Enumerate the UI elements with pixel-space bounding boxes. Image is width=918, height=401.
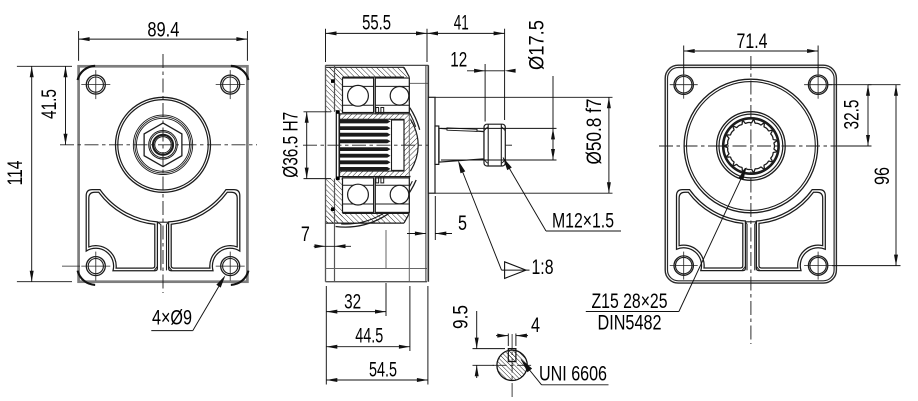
dimension 55.5 extensions — [326, 29, 428, 62]
dimension 54.5 extension — [427, 286, 429, 385]
dimension 4 extensions — [508, 334, 516, 347]
dimension 9.5 extensions — [473, 349, 506, 366]
dimension 9.5 — [450, 305, 479, 378]
section horizontal centerline — [303, 144, 512, 146]
section bearing top (ball bearing) — [343, 78, 410, 113]
section bore end rect — [392, 120, 405, 170]
svg-text:41: 41 — [454, 12, 469, 35]
dimension 96 extensions — [832, 85, 901, 266]
rear recess pocket contour — [677, 190, 826, 271]
label 4xD9 text — [152, 307, 192, 330]
shaft shoulder — [435, 126, 439, 164]
svg-text:41.5: 41.5 — [38, 89, 61, 119]
rear bolt hole bottom-left — [670, 252, 698, 280]
label Z15 28x25 / DIN5482 — [586, 290, 679, 334]
front rib — [154, 222, 172, 270]
section body lower edges — [326, 77, 429, 282]
dimension 41.5 — [38, 66, 68, 145]
dimension 5 — [407, 212, 467, 236]
dimension 114 — [4, 66, 34, 281]
front bolt hole bottom-right (4xD9) — [216, 252, 245, 281]
dimension D50.8 extensions — [435, 97, 612, 193]
svg-text:7: 7 — [301, 223, 310, 246]
section o-ring dots — [331, 79, 340, 211]
shaft thread M12 nut profile — [484, 124, 505, 166]
dimension D36.5 H7 — [280, 112, 309, 179]
section hatch hub wall bottom — [340, 171, 411, 177]
section bearing bottom (ball bearing) — [343, 178, 410, 213]
key cross-section — [508, 349, 516, 362]
front flange corner fillet bottom-left — [78, 271, 96, 285]
rear bolt hole top-right — [804, 71, 832, 99]
section hatch top band — [327, 67, 410, 77]
dimension 32 — [326, 291, 386, 314]
section hatch left wall upper — [326, 67, 343, 112]
dimension 89.4 — [79, 18, 248, 41]
front bolt hole top-left (4xD9) — [81, 70, 110, 99]
taper 1:8 leader — [458, 160, 502, 270]
dimension 32.5 — [841, 85, 871, 146]
rear rib — [742, 222, 759, 270]
section splined hub teeth — [340, 120, 391, 171]
dimension 4 — [496, 314, 540, 338]
front bolt hole bottom-left (4xD9) — [81, 252, 110, 281]
dimension 41 — [427, 12, 505, 36]
svg-text:44.5: 44.5 — [355, 325, 383, 348]
label Z15 leader — [679, 167, 747, 312]
dimension D17.5 extensions — [441, 128, 557, 160]
svg-text:Ø50.8 f7: Ø50.8 f7 — [583, 99, 606, 165]
dimension D50.8 f7 — [583, 97, 611, 193]
front pilot boss circle — [116, 97, 211, 192]
front bolt hole top-right (4xD9) — [216, 70, 245, 99]
rear view vertical centerline — [750, 56, 752, 344]
front bottom-left hole centerline stub — [62, 265, 80, 267]
section seal sleeve — [336, 112, 339, 179]
label 4xD9 leader — [151, 275, 225, 330]
dimension D17.5 — [526, 20, 556, 160]
dimension 71.4 — [684, 30, 818, 53]
front flange corner fillet top-right — [231, 66, 249, 80]
dimension 32 extension — [385, 283, 387, 316]
dimension 32.5 extensions — [828, 85, 872, 146]
rear spline profile Z15 DIN5482 — [725, 120, 777, 172]
dimension 89.4 extension lines — [79, 31, 248, 61]
front view vertical centerline — [162, 54, 164, 293]
svg-text:4: 4 — [531, 314, 540, 337]
section hub face line — [339, 114, 341, 177]
svg-text:UNI 6606: UNI 6606 — [539, 362, 607, 385]
dimension 54.5 — [326, 358, 428, 382]
dimension 96 — [871, 85, 898, 266]
rear view horizontal centerline — [659, 145, 872, 147]
dimension 71.4 extensions — [684, 46, 818, 75]
front recess pocket contour — [86, 190, 240, 271]
front inner circles — [149, 131, 178, 160]
dimension 44.5 extension — [326, 286, 410, 385]
svg-text:Ø36.5 H7: Ø36.5 H7 — [280, 112, 303, 178]
dimension 41 extension — [504, 29, 506, 120]
dimension 7 — [301, 223, 351, 248]
dimension 5 extension — [434, 196, 436, 240]
front view flange plate outline — [79, 66, 248, 281]
shaft key (UNI 6606) — [447, 128, 477, 131]
front view horizontal centerline — [60, 144, 257, 146]
svg-text:Ø17.5: Ø17.5 — [526, 20, 549, 70]
svg-text:55.5: 55.5 — [362, 12, 391, 35]
key detail centerlines — [493, 334, 533, 397]
dimension 12 extension — [484, 64, 486, 122]
shaft pilot (D50.8) — [428, 97, 435, 193]
svg-text:9.5: 9.5 — [450, 305, 473, 329]
front hex plug — [144, 123, 182, 167]
svg-text:Z15 28×25: Z15 28×25 — [592, 290, 668, 313]
rear body circle — [684, 79, 818, 213]
svg-text:96: 96 — [871, 167, 894, 185]
svg-text:71.4: 71.4 — [737, 30, 768, 53]
section hatch left wall lower — [326, 179, 343, 224]
section body top edge — [326, 64, 429, 66]
label M12x1.5 leader — [503, 158, 621, 232]
rear view flange outline — [665, 65, 836, 283]
dimension D36.5 extensions — [304, 112, 332, 179]
section rear plug outline — [404, 119, 418, 171]
front flange corner fillet bottom-right — [231, 271, 249, 285]
svg-text:DIN5482: DIN5482 — [598, 312, 662, 335]
section hub wall outlines — [340, 114, 411, 177]
dimension 41.5 extension — [17, 65, 72, 67]
svg-text:12: 12 — [450, 49, 467, 72]
label M12x1.5 — [552, 209, 614, 232]
section rear cover face — [426, 65, 428, 281]
dimension 55.5 — [326, 12, 428, 36]
dimension 114 extensions — [17, 281, 72, 283]
key shaft section hatched circle — [497, 350, 527, 380]
rear bolt hole top-left — [670, 71, 698, 99]
svg-text:4×Ø9: 4×Ø9 — [152, 307, 192, 330]
shaft taper 1:8 — [439, 128, 484, 162]
dimension 44.5 — [326, 325, 410, 349]
rear hub circles — [717, 112, 786, 181]
section hatch bottom band — [327, 213, 410, 223]
front flange corner fillet top-left — [78, 66, 96, 80]
svg-text:89.4: 89.4 — [147, 18, 179, 41]
section flange plate edges — [326, 65, 335, 281]
label UNI 6606 — [539, 362, 607, 385]
rear bolt hole bottom-right — [804, 252, 832, 280]
svg-text:32.5: 32.5 — [841, 100, 864, 130]
svg-text:M12×1.5: M12×1.5 — [552, 209, 614, 232]
section bearing retainer tabs — [376, 108, 384, 183]
section body bottom band lines — [326, 213, 410, 223]
section hatch rear plug — [404, 119, 418, 171]
svg-text:1:8: 1:8 — [532, 256, 554, 279]
dimension 12 — [450, 49, 515, 73]
svg-text:54.5: 54.5 — [369, 358, 397, 381]
svg-text:114: 114 — [4, 160, 27, 185]
section body top band lines — [326, 67, 410, 77]
label UNI 6606 leader — [521, 360, 609, 385]
svg-text:32: 32 — [344, 291, 361, 314]
taper 1:8 symbol — [502, 256, 554, 279]
front seal housing circles — [133, 115, 192, 174]
section hatch hub wall top — [340, 114, 411, 120]
svg-text:5: 5 — [458, 212, 467, 235]
section body curved profile — [336, 108, 420, 227]
